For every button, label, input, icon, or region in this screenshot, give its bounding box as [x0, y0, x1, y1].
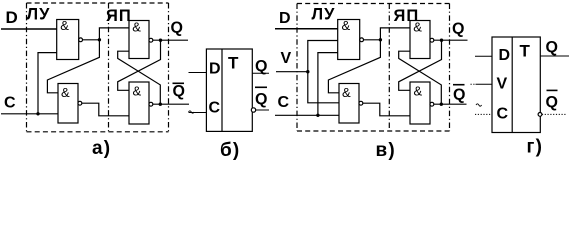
svg-text:&: &	[414, 84, 423, 99]
divider (g)	[511, 37, 513, 133]
svg-text:Q: Q	[171, 20, 183, 37]
wire V input lead-in dots (g)	[471, 83, 476, 85]
node Qbar junction (v)	[440, 103, 443, 106]
wire C input	[1, 113, 58, 115]
svg-text:D: D	[279, 10, 291, 27]
svg-text:T: T	[228, 54, 239, 73]
svg-text:&: &	[61, 85, 70, 100]
wire DD1v out to DD2v input	[328, 40, 380, 93]
dashed box border bottom (a)	[27, 131, 169, 133]
wire DD2v output to DD4v input	[363, 103, 410, 116]
wire C to gate DD1	[38, 53, 57, 114]
svg-text:C: C	[4, 95, 16, 112]
node DD1 output junction	[98, 38, 101, 41]
output label Qbar (a)	[173, 83, 185, 100]
node C junction (v)	[316, 114, 319, 117]
wire D input (b)	[189, 72, 207, 74]
dashed box border top (a)	[27, 2, 169, 4]
wire D input	[1, 28, 57, 30]
dash-dot box border right (v)	[449, 4, 451, 132]
gate DD2v (NAND &)	[339, 84, 363, 124]
svg-text:б): б)	[220, 140, 240, 161]
wire Qbar feedback to DD3v	[399, 51, 442, 104]
node Q junction (v)	[440, 39, 443, 42]
svg-text:C: C	[497, 106, 509, 123]
circuit v: DV latch on NAND gates	[275, 4, 482, 162]
dashed box border top (v)	[297, 3, 450, 5]
wire DD1v out to DD3v input	[380, 28, 410, 40]
bubble on Qbar output (g)	[538, 113, 542, 117]
svg-text:Q: Q	[255, 58, 267, 75]
svg-text:&: &	[413, 20, 422, 35]
svg-text:а): а)	[92, 138, 111, 159]
gate DD1 (NAND &)	[57, 18, 83, 60]
wire DD1 output	[83, 39, 100, 41]
dash-dot box border right (a)	[168, 3, 170, 132]
wire D input (v)	[275, 28, 338, 30]
dash-dot box border left (v)	[296, 4, 298, 132]
wire V input (g)	[476, 83, 493, 85]
gate DD2 (NAND &)	[58, 84, 82, 124]
wire Qbar output (a)	[153, 103, 189, 105]
dash-dot divider LU/YaP (a)	[108, 3, 110, 132]
svg-text:V: V	[497, 76, 508, 93]
svg-text:T: T	[520, 42, 531, 61]
wire Qbar output (v)	[434, 103, 467, 105]
svg-text:&: &	[133, 84, 142, 99]
svg-text:Q: Q	[453, 87, 465, 104]
wire V to gate DD2v	[308, 72, 339, 103]
wire DD1 out to DD3 input	[99, 28, 129, 40]
divider (b)	[221, 49, 223, 131]
svg-text:&: &	[60, 18, 69, 33]
wire break mark after Qbar (v)	[476, 104, 482, 106]
svg-text:Q: Q	[452, 21, 464, 38]
wire C to gate DD1v	[318, 53, 338, 116]
wire Q feedback to DD4	[118, 40, 161, 90]
node V junction (v)	[306, 70, 309, 73]
svg-text:Q: Q	[255, 91, 267, 108]
node Q junction (a)	[159, 39, 162, 42]
svg-text:&: &	[342, 85, 351, 100]
gate DD4v (NAND &)	[410, 82, 434, 124]
bubble on Qbar output (b)	[251, 108, 255, 112]
svg-text:ЛУ: ЛУ	[27, 6, 51, 24]
svg-text:Q: Q	[546, 39, 558, 56]
node C junction	[36, 112, 39, 115]
wire Q output (v)	[434, 39, 468, 41]
svg-text:&: &	[342, 18, 351, 33]
circuit g: DV trigger symbol	[471, 37, 570, 158]
node Qbar junction (a)	[159, 103, 162, 106]
svg-text:D: D	[209, 61, 221, 78]
circuit b: D trigger symbol	[189, 49, 270, 161]
output label Qbar (v)	[453, 85, 465, 104]
dash-dot divider LU/YaP (v)	[388, 4, 390, 132]
svg-text:Q: Q	[173, 83, 185, 100]
svg-text:D: D	[499, 47, 511, 64]
wire Qbar feedback to DD3	[118, 51, 161, 104]
gate DD1v (NAND &)	[338, 18, 364, 60]
wire Q feedback to DD4v	[399, 40, 442, 90]
wire C input (g)	[475, 113, 492, 115]
dashed box border bottom (v)	[297, 130, 450, 132]
dash-dot box border left (a)	[26, 3, 28, 132]
wire Q output (a)	[153, 39, 188, 41]
wire Qbar output (b)	[256, 109, 269, 111]
wire C input (b)	[189, 112, 207, 114]
gate DD3 (NAND &)	[129, 20, 153, 59]
svg-text:C: C	[209, 100, 221, 117]
gate DD3v (NAND &)	[410, 20, 434, 59]
svg-text:ЛУ: ЛУ	[312, 6, 336, 24]
svg-text:D: D	[6, 8, 18, 27]
svg-text:V: V	[281, 50, 292, 67]
svg-text:Q: Q	[546, 94, 558, 111]
circuit a: D latch on NAND gates	[1, 3, 194, 159]
node DD1v output junction	[379, 38, 382, 41]
wire Q output (b)	[252, 72, 269, 74]
wire Qbar output (g)	[542, 113, 567, 115]
svg-text:ЯП: ЯП	[106, 7, 132, 25]
gate DD4 (NAND &)	[129, 82, 153, 124]
wire DD2 output to DD4 input	[82, 103, 129, 116]
wire Q output (g)	[540, 55, 569, 57]
wire C input (v)	[275, 114, 339, 116]
wire V to gate DD1v	[308, 41, 338, 72]
box DD (g)	[492, 37, 540, 133]
box DD (b)	[206, 49, 252, 131]
wire V input (v)	[276, 71, 308, 73]
svg-text:C: C	[278, 94, 290, 111]
svg-text:г): г)	[527, 137, 544, 158]
svg-text:в): в)	[376, 140, 396, 161]
wire break mark after Qbar (a)	[189, 111, 195, 113]
wire D input (g)	[475, 55, 492, 57]
wire DD1 out to DD2 input	[47, 40, 99, 93]
wire DD1v output	[364, 39, 381, 41]
output label Qbar (b)	[255, 87, 267, 108]
output label Qbar (g)	[546, 90, 558, 111]
svg-text:&: &	[132, 20, 141, 35]
